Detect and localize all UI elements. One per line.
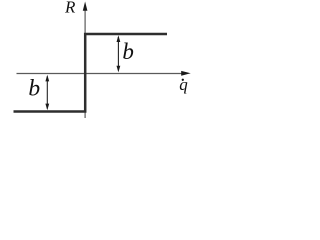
svg-text:R: R	[64, 0, 76, 16]
svg-text:b: b	[28, 76, 40, 102]
svg-text:b: b	[122, 39, 133, 64]
step function curve	[14, 34, 168, 112]
dimension arrow b upper	[117, 35, 121, 72]
label q-dot	[179, 75, 188, 94]
horizontal axis	[17, 71, 191, 76]
svg-text:q: q	[179, 75, 188, 94]
vertical axis	[83, 2, 88, 119]
dimension arrow b lower	[45, 75, 49, 111]
